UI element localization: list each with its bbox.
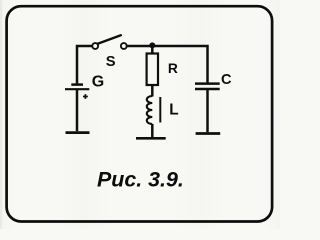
capacitor bottom terminal bar	[196, 132, 221, 135]
svg-text:R: R	[168, 61, 178, 76]
caption Рис. 3.9.	[97, 168, 184, 192]
switch S left contact	[92, 43, 98, 49]
capacitor C bottom plate	[195, 88, 220, 91]
inductor L coil	[147, 96, 153, 124]
wire coil bottom to terminal	[151, 124, 154, 137]
label C	[221, 72, 232, 88]
svg-text:G: G	[92, 73, 104, 90]
wire junction to resistor top	[151, 45, 154, 54]
switch S lever	[98, 35, 121, 44]
battery bottom terminal bar	[66, 131, 90, 134]
wire battery bottom	[76, 89, 79, 131]
capacitor C top plate	[195, 82, 220, 85]
node junction dot	[149, 42, 155, 48]
label S	[106, 54, 116, 70]
label G	[92, 73, 104, 90]
label R	[168, 61, 178, 76]
svg-text:S: S	[106, 54, 116, 70]
battery polarity plus sign	[83, 94, 88, 99]
label L	[169, 101, 178, 118]
battery G short (negative) plate	[71, 83, 83, 86]
wire switch to junction to right corner and down to capacitor	[127, 46, 208, 83]
inductor bottom terminal bar	[136, 137, 166, 140]
svg-text:L: L	[169, 101, 178, 118]
battery G long (positive) plate	[65, 88, 89, 90]
wire resistor bottom to coil	[151, 85, 154, 97]
resistor R	[147, 54, 158, 86]
svg-text:C: C	[221, 72, 232, 88]
svg-text:Рис. 3.9.: Рис. 3.9.	[97, 168, 184, 192]
switch S right contact	[121, 43, 127, 49]
inductor L core line	[159, 97, 161, 123]
wire battery top to switch	[77, 46, 92, 84]
wire capacitor bottom	[206, 89, 209, 132]
